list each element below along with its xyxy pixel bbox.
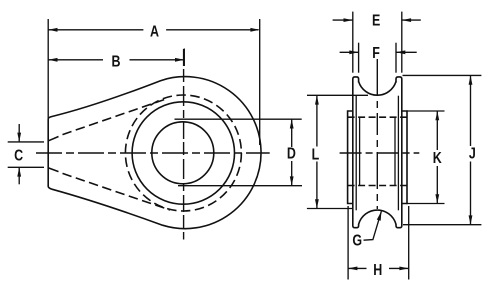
arrowhead J top <box>469 75 473 84</box>
svg-text:A: A <box>150 23 159 41</box>
side view right rim profile <box>396 77 402 228</box>
arrowhead A right <box>250 28 259 32</box>
svg-text:F: F <box>372 44 380 62</box>
dim K line <box>436 111 438 204</box>
dim F extension left <box>358 43 360 73</box>
top groove curve <box>359 82 396 96</box>
far lip edge seen through eye hole left <box>359 117 361 185</box>
dim A extension line left <box>47 19 49 118</box>
far-side groove waist right <box>397 96 399 211</box>
arrowhead J bottom <box>469 215 473 224</box>
dim A line <box>48 29 258 31</box>
svg-text:D: D <box>287 145 296 163</box>
svg-text:J: J <box>469 145 476 163</box>
hidden eye line bottom (dashed) <box>348 185 407 187</box>
arrowhead E left <box>344 18 353 22</box>
dim E line left <box>333 19 353 21</box>
svg-text:E: E <box>372 12 380 30</box>
svg-text:H: H <box>373 261 382 279</box>
dim D extension bottom <box>178 185 302 187</box>
dim B extension right <box>183 49 185 67</box>
groove seat circle (second) <box>132 102 234 204</box>
arrowhead B left <box>48 58 57 62</box>
svg-text:B: B <box>111 53 120 71</box>
arrowhead C top <box>17 133 21 142</box>
dim H line <box>348 267 409 269</box>
far lip edge seen through eye hole right <box>394 117 396 185</box>
dim B line <box>48 59 183 61</box>
dim E extension left <box>352 12 354 73</box>
arrowhead G <box>377 211 382 221</box>
dim A extension line right <box>259 19 261 145</box>
dim H extension right <box>408 206 410 280</box>
dim D line <box>291 119 293 186</box>
dim H extension left <box>347 206 349 280</box>
side view left rim profile <box>353 77 359 228</box>
arrowhead E right <box>402 18 411 22</box>
arrowhead F left <box>349 50 358 54</box>
svg-text:G: G <box>352 232 362 250</box>
dim F extension right <box>395 43 397 73</box>
vertical centerline of side view <box>376 59 378 209</box>
upper hidden groove line (dashed) <box>63 99 167 135</box>
dim F line left <box>340 51 359 53</box>
dim D extension top <box>175 118 302 120</box>
upper groove stub at tip <box>48 137 58 141</box>
arrowhead F right <box>396 50 405 54</box>
lower groove stub at tip <box>48 168 58 172</box>
arrowhead K bottom <box>435 194 439 203</box>
dim C extension bottom <box>8 166 44 168</box>
arrowhead H left <box>348 267 357 271</box>
lower hidden groove line (dashed) <box>63 173 171 210</box>
vertical centerline of eye <box>183 49 185 240</box>
arrowhead D bottom <box>290 176 294 185</box>
dim J extension bottom <box>403 224 481 226</box>
left flange <box>348 111 353 204</box>
svg-text:K: K <box>433 150 443 168</box>
arrowhead L bottom <box>315 199 319 208</box>
dim C extension top <box>8 141 44 143</box>
dim K extension top <box>406 110 444 112</box>
bottom groove arch <box>359 210 396 224</box>
dim E line right <box>402 19 421 21</box>
arrowhead L top <box>315 95 319 104</box>
dim L extension bottom <box>307 208 353 210</box>
dim K extension bottom <box>406 203 444 205</box>
dim C arrow line top <box>18 124 20 142</box>
leader line G <box>364 211 382 240</box>
arrowhead K top <box>435 111 439 120</box>
horizontal centerline of side view <box>340 152 420 154</box>
svg-text:C: C <box>14 147 23 165</box>
arrowhead A left <box>48 28 57 32</box>
hidden eye line top (dashed) <box>348 116 407 118</box>
dim J line <box>470 75 472 224</box>
hidden groove circle (dashed) <box>125 95 241 211</box>
arrowhead H right <box>399 267 408 271</box>
thimble outline (left view) <box>48 77 261 229</box>
dim E extension right <box>401 12 403 73</box>
arrowhead B right <box>175 58 184 62</box>
arrowhead D top <box>290 119 294 128</box>
arrowhead C bottom <box>17 167 21 176</box>
dim F line right <box>396 51 417 53</box>
right flange <box>402 111 407 204</box>
dim L line <box>316 95 318 208</box>
dim L extension top <box>307 94 368 96</box>
eye hole circle (inner) <box>152 122 214 184</box>
dim C arrow line bottom <box>18 167 20 184</box>
horizontal centerline of left view <box>36 152 270 154</box>
far-side groove waist left <box>355 96 357 211</box>
dim J extension top <box>403 74 482 76</box>
svg-text:L: L <box>312 146 320 164</box>
